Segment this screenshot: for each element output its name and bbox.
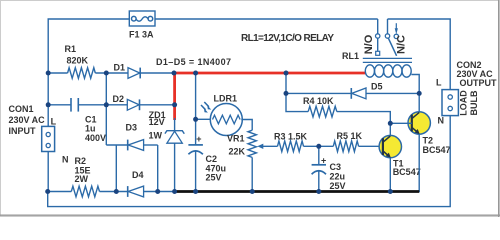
label ZD1 12V 1W (149, 110, 166, 141)
wire C2 branch vertical (195, 73, 197, 145)
svg-text:R1: R1 (65, 44, 77, 54)
label T2 BC547 (423, 136, 451, 156)
wire D1 to +12V corner (140, 72, 174, 74)
wire neutral bottom (48, 116, 451, 207)
label C3 22u 25V (330, 162, 346, 191)
svg-text:22K: 22K (229, 147, 246, 157)
svg-text:L: L (51, 116, 57, 126)
wire positive red vertical (173, 72, 176, 120)
zener ZD1 (165, 118, 184, 192)
svg-text:R5 1K: R5 1K (337, 131, 363, 141)
wire R1 to D1 (95, 72, 128, 74)
resistor R5 (333, 141, 358, 152)
svg-text:1W: 1W (149, 131, 163, 141)
resistor R1 (68, 68, 96, 79)
svg-text:N/C: N/C (396, 35, 408, 54)
diode D1 (128, 68, 140, 79)
resistor R3 (278, 141, 304, 152)
diode D3 (106, 140, 157, 151)
relay RL1 coil (363, 58, 419, 93)
svg-text:LOAD: LOAD (459, 90, 469, 116)
svg-text:230V AC: 230V AC (9, 115, 46, 125)
resistor R4 (308, 106, 337, 117)
svg-text:25V: 25V (206, 173, 222, 183)
diode D2 (106, 99, 174, 110)
svg-text:1u: 1u (85, 124, 96, 134)
ground rail black (176, 190, 419, 193)
svg-text:L: L (436, 78, 442, 88)
wire LDR left lead (196, 118, 212, 120)
svg-text:12V: 12V (149, 117, 165, 127)
wire C1 to D2 node (78, 104, 106, 106)
svg-text:N: N (438, 116, 445, 126)
relay pole (385, 19, 396, 56)
svg-text:+: + (321, 156, 326, 166)
capacitor C2 (188, 134, 203, 192)
wire top rail fuse to relay N/O (155, 18, 378, 20)
svg-text:F1 3A: F1 3A (129, 30, 154, 40)
wire D3 cathode down (115, 145, 117, 192)
wire CON1 N down (47, 152, 49, 192)
svg-text:N: N (62, 155, 69, 165)
svg-text:BULB: BULB (469, 90, 479, 115)
wire pole to CON2 L (388, 19, 451, 90)
LDR1 (201, 102, 242, 136)
transistor T2 BC547 (408, 93, 430, 192)
svg-text:C3: C3 (330, 162, 342, 172)
wire LDR right lead (241, 120, 252, 131)
svg-text:OUTPUT: OUTPUT (460, 78, 498, 88)
svg-text:RL1=12V,1C/O RELAY: RL1=12V,1C/O RELAY (241, 33, 334, 44)
fuse F1 (129, 11, 155, 26)
svg-text:LDR1: LDR1 (214, 94, 238, 104)
label C2 470u 25V (206, 154, 227, 183)
capacitor C1 (71, 98, 78, 112)
svg-text:25V: 25V (330, 181, 346, 191)
svg-text:C2: C2 (206, 154, 218, 164)
label CON1 230V AC INPUT (9, 104, 69, 165)
wire R4 left (286, 93, 308, 111)
svg-text:D2: D2 (113, 94, 125, 104)
wire AC node vertical (105, 73, 107, 145)
wire R4 to T2 base node (337, 112, 391, 124)
connector CON1 (42, 126, 55, 151)
wire D3 anode down (157, 145, 159, 192)
connector CON2 (442, 90, 458, 116)
label LOAD BULB (459, 90, 480, 116)
label CON2 230V AC OUTPUT (436, 60, 497, 126)
transistor T1 BC547 (379, 123, 401, 191)
label R1 820K (65, 44, 89, 66)
label T1 BC547 (393, 159, 421, 177)
diode D4 (128, 186, 177, 197)
label VR1 22K (227, 134, 246, 157)
capacitor C3 (312, 146, 327, 191)
label R2 15E 2W (75, 156, 91, 184)
svg-text:400V: 400V (85, 133, 106, 143)
svg-text:D4: D4 (132, 170, 144, 180)
resistor R2 (71, 186, 99, 197)
wire +12V red rail (173, 72, 365, 75)
svg-text:R4 10K: R4 10K (303, 96, 334, 106)
wire C1 left lead (48, 104, 71, 106)
svg-text:T2: T2 (423, 136, 434, 146)
wire top rail left (L to fuse) (48, 19, 129, 126)
wire R3 to C3 node (304, 145, 334, 147)
relay contact N/C (394, 23, 398, 38)
svg-text:VR1: VR1 (227, 134, 245, 144)
wire rail left (48, 191, 72, 193)
wire T1 collector to T2 base (390, 122, 412, 124)
wire +12V to R4/D5 node (285, 73, 287, 93)
svg-text:+: + (196, 134, 201, 144)
svg-text:RL1: RL1 (342, 51, 359, 61)
svg-text:D1: D1 (114, 63, 126, 73)
wire R1 left lead (48, 72, 67, 74)
svg-text:BC547: BC547 (423, 145, 451, 155)
wire R2 to D4 (100, 191, 128, 193)
svg-text:R2: R2 (75, 156, 87, 166)
svg-text:N/O: N/O (363, 34, 375, 54)
diode D5 (286, 88, 419, 99)
svg-text:D1–D5 = 1N4007: D1–D5 = 1N4007 (156, 57, 231, 67)
wire R5 to T1 base (359, 145, 383, 147)
label C1 1u 400V (85, 115, 106, 144)
svg-text:D5: D5 (371, 82, 383, 92)
svg-text:INPUT: INPUT (9, 126, 37, 136)
svg-text:BC547: BC547 (393, 167, 421, 177)
svg-text:22u: 22u (330, 172, 346, 182)
relay contact N/O (376, 19, 380, 55)
potentiometer VR1 (248, 130, 278, 191)
svg-text:D3: D3 (126, 123, 138, 133)
svg-text:CON1: CON1 (9, 104, 34, 114)
svg-text:2W: 2W (75, 174, 89, 184)
svg-text:R3 1.5K: R3 1.5K (274, 132, 308, 142)
svg-text:820K: 820K (67, 56, 89, 66)
